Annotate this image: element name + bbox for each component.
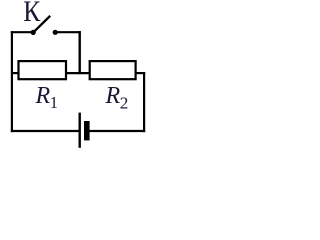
svg-text:R: R [35, 83, 51, 109]
wire: switch right contact to top-right corner [55, 31, 81, 33]
switch K lever [33, 16, 50, 33]
wire: middle horizontal node R1-right to R2-left [66, 72, 90, 74]
svg-text:К: К [23, 0, 41, 28]
svg-text:1: 1 [50, 93, 58, 112]
wire: switch branch vertical down to node between R1 and R2 [78, 31, 80, 74]
battery long thin plate (positive) [78, 113, 80, 148]
wire: bottom horizontal right segment from battery [89, 130, 145, 132]
switch K left contact dot [31, 30, 36, 35]
wire: stub from R2 right terminal to right wire [136, 72, 146, 74]
resistor R1 box [19, 61, 67, 79]
wire: top-left horizontal to switch left contact [11, 31, 33, 33]
wire: bottom horizontal left segment to battery [11, 130, 79, 132]
wire: stub from left wire to R1 left terminal [11, 72, 19, 74]
svg-text:R: R [105, 83, 121, 109]
wire: right vertical down to bottom-right corner [143, 72, 145, 132]
wire: left vertical from switch corner to bottom-left corner [11, 31, 13, 132]
resistor R2 box [90, 61, 136, 79]
switch K right contact dot [53, 30, 58, 35]
battery short thick plate (negative) [84, 121, 90, 140]
svg-text:2: 2 [120, 94, 129, 113]
